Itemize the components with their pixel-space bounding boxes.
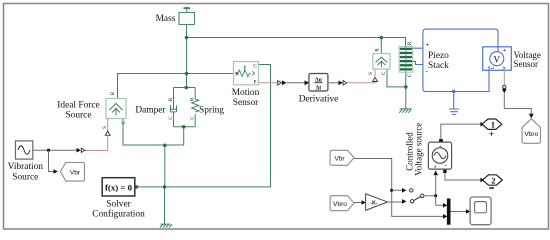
svg-text:Solver: Solver [106, 200, 131, 210]
svg-text:Vbr: Vbr [70, 169, 81, 176]
svg-text:Sensor: Sensor [233, 98, 259, 108]
svg-text:Source: Source [12, 173, 38, 183]
svg-text:Source: Source [65, 111, 91, 121]
svg-text:Vbro: Vbro [524, 131, 538, 138]
svg-text:2: 2 [491, 175, 495, 185]
svg-text:V: V [494, 54, 501, 64]
svg-text:Motion: Motion [232, 88, 260, 98]
svg-text:+: + [503, 48, 506, 54]
svg-text:f(x) = 0: f(x) = 0 [105, 183, 133, 193]
svg-text:Mass: Mass [156, 14, 176, 24]
svg-text:Damper: Damper [135, 106, 166, 116]
svg-text:Piezo: Piezo [428, 51, 449, 61]
svg-text:Stack: Stack [428, 61, 449, 71]
svg-text:Ideal Force: Ideal Force [57, 101, 99, 111]
svg-text:Δt: Δt [316, 85, 322, 91]
svg-text:-K-: -K- [370, 200, 377, 206]
svg-text:-: - [445, 163, 447, 170]
svg-text:Vibration: Vibration [8, 162, 44, 172]
svg-text:S: S [369, 72, 374, 75]
svg-text:s: s [434, 164, 436, 170]
svg-text:Sensor: Sensor [514, 59, 539, 69]
svg-text:Voltage source: Voltage source [414, 123, 424, 176]
svg-text:Spring: Spring [199, 106, 224, 116]
svg-text:Vbro: Vbro [333, 201, 347, 208]
svg-text:Derivative: Derivative [299, 95, 339, 105]
svg-text:Vbr: Vbr [334, 156, 345, 163]
svg-text:Configuration: Configuration [92, 209, 145, 220]
svg-text:+: + [489, 129, 495, 140]
svg-text:+: + [426, 43, 430, 49]
svg-text:P: P [254, 81, 257, 86]
